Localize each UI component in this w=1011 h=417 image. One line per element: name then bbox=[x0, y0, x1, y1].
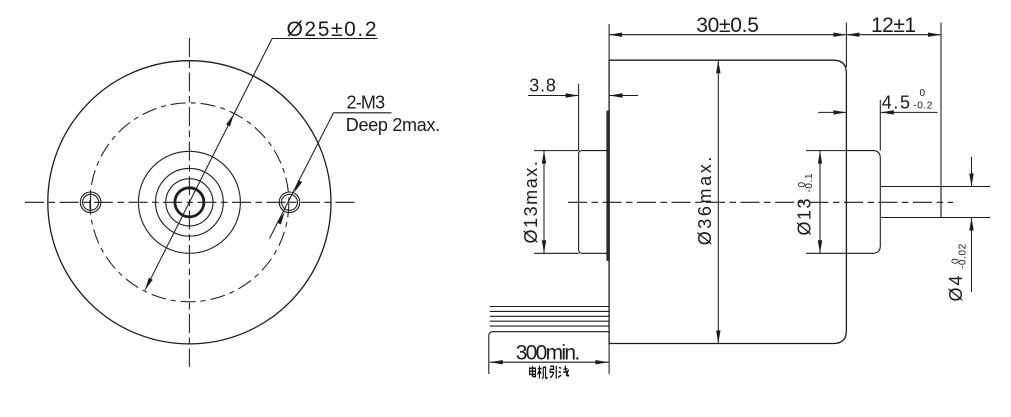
side view: front boss (Ø13max) bbox=[579, 151, 610, 254]
front view: right mounting hole M3 outer bbox=[279, 192, 300, 213]
svg-text:Ø36max.: Ø36max. bbox=[695, 154, 715, 245]
side view: flange edge thick bar bbox=[606, 111, 609, 262]
side view: horizontal centerline bbox=[568, 201, 953, 203]
right extension for 300min (body edge extended) bbox=[608, 344, 610, 375]
char 机 bbox=[538, 366, 547, 379]
dimension 300min bbox=[490, 361, 609, 363]
Ø25 arrowhead lower bbox=[145, 278, 153, 291]
front view: left hole vertical tick bbox=[90, 192, 92, 214]
svg-text:Ø13max.: Ø13max. bbox=[521, 160, 541, 244]
front view: bolt circle (dash-dot, Ø25) bbox=[90, 103, 289, 302]
leader line for 2-M3 bbox=[270, 113, 334, 239]
front view: left mounting hole M3 inner bbox=[83, 194, 99, 210]
side view: rear boss (Ø13) bbox=[846, 151, 880, 254]
front view: vertical centerline bbox=[188, 38, 190, 367]
dimension Ø13 0/-0.1 vertical bbox=[806, 150, 846, 152]
side view: motor body outline bbox=[609, 60, 846, 343]
wire bundle bottom outline bbox=[489, 332, 609, 374]
Ø25 arrowhead upper bbox=[226, 114, 234, 127]
svg-text:Deep 2max.: Deep 2max. bbox=[346, 115, 440, 135]
dimension 3.8 bbox=[578, 84, 580, 151]
dimension Ø4 0/-0.02 bbox=[941, 186, 990, 188]
2-M3 leader underline bbox=[334, 112, 392, 114]
svg-text:4.5: 4.5 bbox=[882, 93, 912, 113]
text 电机引线 (drawn strokes) bbox=[530, 366, 569, 379]
front view: boss circle middle bbox=[156, 168, 224, 236]
dimension 4.5 0/-0.2 bbox=[879, 100, 881, 151]
front view: horizontal centerline bbox=[25, 201, 355, 203]
dimension 30±0.5 bbox=[608, 24, 610, 60]
front view: right mounting hole M3 inner bbox=[282, 194, 298, 210]
char 线 bbox=[558, 366, 569, 378]
front view: motor body outer circle bbox=[48, 61, 331, 344]
svg-text:30±0.5: 30±0.5 bbox=[696, 14, 758, 37]
svg-text:-0.1: -0.1 bbox=[804, 173, 815, 193]
dimension Ø36max vertical bbox=[717, 60, 719, 343]
char 电 bbox=[530, 366, 536, 377]
svg-text:12±1: 12±1 bbox=[871, 14, 916, 37]
lead wires (5 lines) bbox=[490, 306, 609, 308]
leader line for Ø25±0.2 bbox=[145, 39, 272, 291]
svg-text:-0.02: -0.02 bbox=[958, 243, 969, 269]
svg-text:Ø4: Ø4 bbox=[946, 273, 966, 301]
svg-text:Ø25±0.2: Ø25±0.2 bbox=[287, 18, 379, 41]
svg-text:0: 0 bbox=[920, 88, 926, 99]
2-M3 arrowhead lower bbox=[277, 212, 285, 225]
char 引 bbox=[550, 366, 556, 379]
front view: shaft ring (thick) bbox=[175, 188, 204, 217]
svg-text:3.8: 3.8 bbox=[529, 76, 556, 96]
svg-text:-0.2: -0.2 bbox=[913, 101, 933, 112]
side view: shaft (Ø4) bbox=[880, 187, 941, 218]
svg-text:2-M3: 2-M3 bbox=[347, 93, 386, 113]
svg-text:Ø13: Ø13 bbox=[795, 197, 815, 236]
2-M3 arrowhead upper bbox=[294, 180, 302, 193]
dimension 12±1 bbox=[940, 23, 942, 218]
front view: boss circle outer bbox=[138, 151, 240, 253]
front view: boss circle inner bbox=[166, 179, 213, 226]
svg-text:300min.: 300min. bbox=[516, 341, 579, 364]
front view: left mounting hole M3 outer bbox=[80, 192, 101, 213]
Ø25 leader underline bbox=[272, 38, 377, 40]
dimension Ø13max vertical bbox=[534, 150, 579, 152]
